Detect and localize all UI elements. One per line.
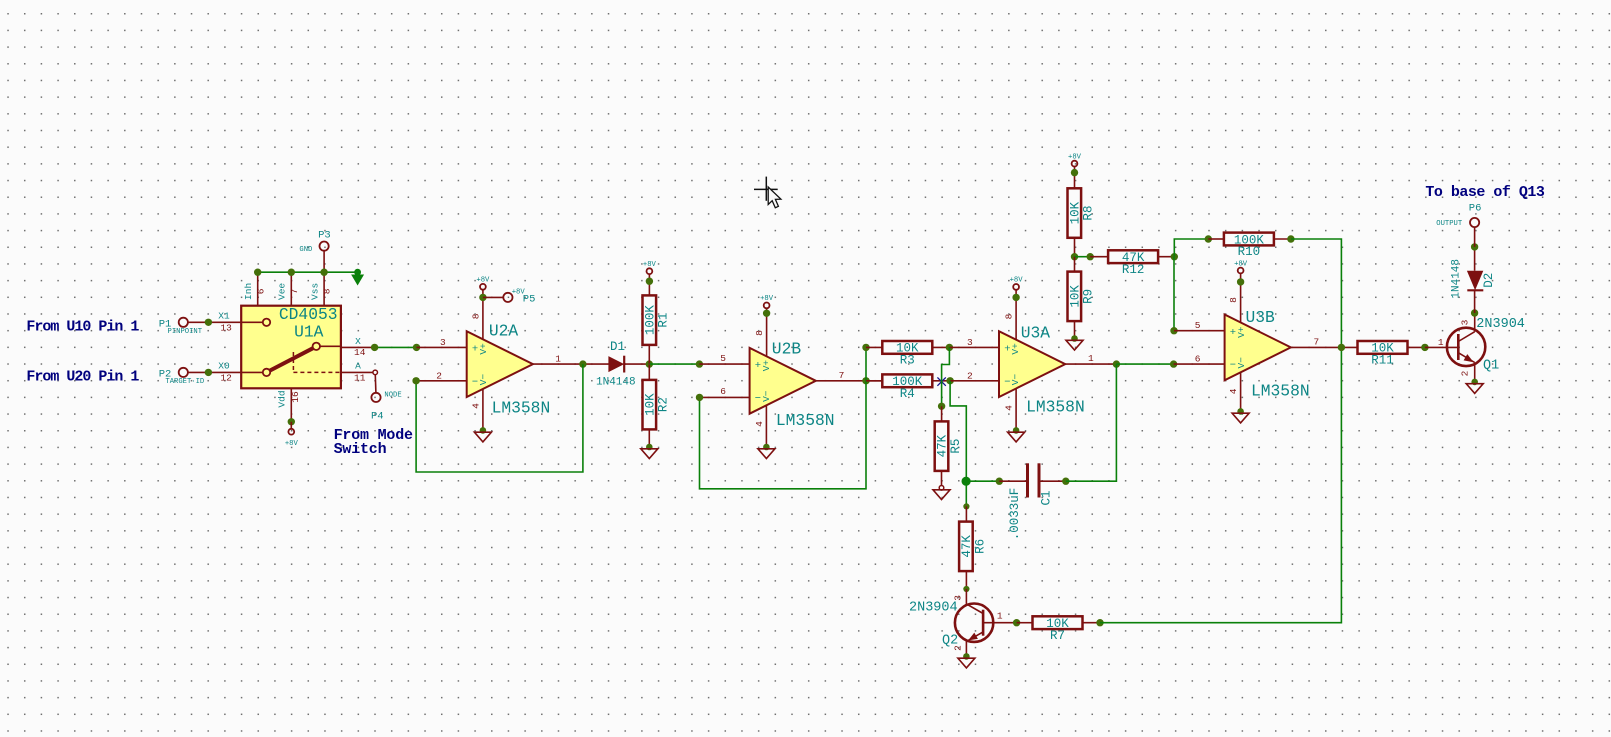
svg-text:2N3904: 2N3904 xyxy=(909,601,958,616)
svg-text:TARGET·ID: TARGET·ID xyxy=(165,378,204,386)
wire pin2 node down xyxy=(950,381,966,481)
diode D1 xyxy=(596,340,636,388)
svg-text:10K: 10K xyxy=(1069,201,1083,224)
svg-text:U3B: U3B xyxy=(1246,308,1276,327)
junction xyxy=(479,294,486,301)
ground U2A xyxy=(474,427,491,442)
connector P3 GND xyxy=(299,230,330,273)
junction xyxy=(963,586,969,592)
svg-text:From U20 Pin 1: From U20 Pin 1 xyxy=(26,369,139,386)
junction xyxy=(1071,169,1078,176)
pin Vdd (16) xyxy=(277,388,301,422)
svg-text:5: 5 xyxy=(720,353,726,364)
junction xyxy=(413,344,420,351)
svg-text:7: 7 xyxy=(289,289,300,295)
pin 1 output U3A xyxy=(1065,353,1116,364)
svg-text:R12: R12 xyxy=(1122,263,1145,277)
wire C1 node left xyxy=(966,480,999,482)
pin 5 stub U2B xyxy=(699,353,749,364)
svg-text:V+: V+ xyxy=(478,343,489,355)
svg-text:R8: R8 xyxy=(1082,206,1096,221)
junction xyxy=(288,269,295,276)
svg-text:8: 8 xyxy=(1003,313,1014,319)
wire R4 right stub xyxy=(932,380,950,382)
wire gnd bus xyxy=(258,271,358,273)
svg-text:10K: 10K xyxy=(1069,285,1083,308)
pin Vss (8) xyxy=(309,272,332,306)
mux U1A control dashed line xyxy=(293,352,341,372)
pin 2 stub U3A xyxy=(950,370,999,381)
junction xyxy=(1205,235,1212,242)
wire U2B feedback loop xyxy=(700,381,867,489)
ground U3A xyxy=(1008,427,1025,442)
op-amp U3B xyxy=(1225,308,1310,400)
svg-text:U3A: U3A xyxy=(1021,324,1051,343)
svg-text:NODE: NODE xyxy=(384,392,401,400)
wire R5 top xyxy=(941,406,943,421)
pin 7 output U2B xyxy=(816,370,882,381)
svg-text:V−: V− xyxy=(761,390,772,402)
junction xyxy=(1170,327,1177,334)
svg-text:2: 2 xyxy=(953,645,964,651)
pin 5 stub U3B xyxy=(1174,320,1225,331)
junction xyxy=(371,344,378,351)
svg-text:7: 7 xyxy=(1314,336,1320,347)
wire R3 left stub xyxy=(866,346,882,348)
ground Q2 xyxy=(958,653,975,668)
op-amp U3A xyxy=(999,324,1085,417)
connector P5 xyxy=(483,288,536,305)
svg-text:1: 1 xyxy=(1438,337,1444,348)
svg-text:Switch: Switch xyxy=(334,441,387,458)
mouse cursor crosshair xyxy=(754,177,781,208)
connector P2 xyxy=(159,368,205,386)
svg-text:8: 8 xyxy=(470,313,481,319)
no-connect X marker xyxy=(937,377,945,385)
wire R8R12 link xyxy=(1075,256,1091,258)
pin X0 (12) xyxy=(188,361,263,384)
pin 8 U3B xyxy=(1228,273,1241,323)
wire R6 bottom xyxy=(965,571,967,589)
svg-text:Inh: Inh xyxy=(243,283,254,300)
svg-text:4: 4 xyxy=(470,403,481,409)
svg-text:R5: R5 xyxy=(949,439,963,454)
pin 2 stub U2A xyxy=(416,370,467,381)
junction xyxy=(938,403,945,410)
pin 1 output U2A xyxy=(533,354,609,365)
junction xyxy=(205,319,212,326)
transistor Q2 xyxy=(909,589,1003,656)
op-amp U2B xyxy=(750,340,835,431)
svg-text:R1: R1 xyxy=(657,313,671,328)
wire U2A feedback loop xyxy=(416,364,583,472)
mux U1A switch lever xyxy=(270,348,313,370)
svg-text:P5: P5 xyxy=(523,294,536,306)
svg-text:X1: X1 xyxy=(218,311,230,322)
wire R10 left stub xyxy=(1208,238,1224,240)
resistor R4 xyxy=(882,374,932,401)
svg-text:D1: D1 xyxy=(610,340,625,354)
svg-text:6: 6 xyxy=(720,386,726,397)
wire R12 right stub xyxy=(1158,256,1174,258)
svg-text:8: 8 xyxy=(322,288,333,294)
svg-text:OUTPUT: OUTPUT xyxy=(1436,220,1463,228)
pin 6 stub U3B xyxy=(1174,353,1225,364)
svg-text:Vdd: Vdd xyxy=(277,390,288,407)
pin 4 U2B xyxy=(754,406,766,448)
junction xyxy=(1471,309,1478,316)
svg-text:8: 8 xyxy=(754,330,765,336)
svg-text:U2A: U2A xyxy=(489,321,519,340)
wire R8 bottom xyxy=(1074,238,1076,257)
junction xyxy=(1071,253,1078,260)
svg-text:12: 12 xyxy=(220,373,232,384)
mux U1A switch contacts xyxy=(263,319,320,377)
resistor R9 xyxy=(1068,272,1096,322)
junction xyxy=(862,377,869,384)
wire R1 bottom xyxy=(648,345,650,364)
ground U3B xyxy=(1232,408,1249,423)
svg-text:+8V: +8V xyxy=(1234,260,1248,268)
pin Vee (7) xyxy=(277,272,300,306)
svg-text:1: 1 xyxy=(555,354,561,365)
wire R9 bottom xyxy=(1074,321,1076,338)
ground R5 xyxy=(933,486,950,500)
svg-text:A: A xyxy=(355,361,361,372)
junction xyxy=(354,269,361,276)
svg-text:+8V: +8V xyxy=(643,261,657,269)
wire R2 top xyxy=(648,364,650,380)
ground R9 xyxy=(1066,335,1083,350)
svg-text:P6: P6 xyxy=(1469,202,1482,214)
wire R6 top stub xyxy=(965,506,967,521)
junction xyxy=(1062,478,1069,485)
svg-text:R11: R11 xyxy=(1371,354,1394,368)
svg-text:LM358N: LM358N xyxy=(1026,397,1085,416)
pin 1 Q1 base wire xyxy=(1425,337,1458,348)
svg-text:LM358N: LM358N xyxy=(492,399,551,418)
svg-text:2: 2 xyxy=(436,370,442,381)
junction xyxy=(205,369,212,376)
svg-text:+8V: +8V xyxy=(1010,277,1024,285)
text From Mode Switch xyxy=(334,427,413,458)
svg-text:R2: R2 xyxy=(657,397,671,412)
wire C1 to U3A out xyxy=(1066,364,1117,481)
svg-text:8: 8 xyxy=(1228,297,1239,303)
wire R10 right stub xyxy=(1274,238,1291,240)
svg-text:16: 16 xyxy=(290,391,301,403)
svg-text:P4: P4 xyxy=(371,411,384,423)
resistor R2 xyxy=(643,380,671,430)
svg-text:From U10 Pin 1: From U10 Pin 1 xyxy=(26,318,139,335)
svg-text:47K: 47K xyxy=(960,535,974,558)
resistor R12 xyxy=(1108,250,1158,277)
ground (green filled) xyxy=(352,275,363,285)
ground U2B xyxy=(758,444,775,459)
pin 8 U2A xyxy=(470,297,483,340)
svg-text:R3: R3 xyxy=(900,354,915,368)
wire D1 node to pin5 xyxy=(649,363,699,365)
svg-text:1: 1 xyxy=(1088,353,1094,364)
pin 7 output U3B xyxy=(1291,336,1358,347)
pin 8 U2B xyxy=(754,308,767,356)
svg-text:Vss: Vss xyxy=(309,283,320,300)
junction xyxy=(288,418,295,425)
svg-text:6: 6 xyxy=(1195,353,1201,364)
wire R6 top green xyxy=(965,481,967,506)
junction xyxy=(1421,344,1428,351)
resistor R1 xyxy=(643,295,671,345)
svg-text:1: 1 xyxy=(997,611,1003,622)
svg-text:1N4148: 1N4148 xyxy=(1451,259,1463,299)
text From U20 Pin 1 xyxy=(26,369,139,386)
svg-text:R6: R6 xyxy=(973,539,987,554)
wire R12 left stub xyxy=(1090,256,1108,258)
svg-text:R10: R10 xyxy=(1238,245,1261,259)
junction xyxy=(962,477,971,486)
junction xyxy=(696,360,703,367)
wire D1 cathode xyxy=(624,363,649,365)
capacitor C1 xyxy=(999,463,1066,540)
resistor R8 xyxy=(1068,188,1096,238)
wire R4 left stub xyxy=(866,380,882,382)
junction xyxy=(412,377,419,384)
resistor R11 xyxy=(1358,341,1408,368)
svg-text:2N3904: 2N3904 xyxy=(1476,317,1525,332)
svg-text:+8V: +8V xyxy=(285,440,299,448)
resistor R10 xyxy=(1224,233,1274,260)
svg-text:2: 2 xyxy=(1459,370,1470,376)
junction xyxy=(696,394,703,401)
svg-text:D2: D2 xyxy=(1482,273,1496,288)
diode D2 xyxy=(1451,247,1497,313)
connector P6 OUTPUT xyxy=(1436,202,1481,247)
junction xyxy=(320,269,327,276)
junction xyxy=(579,360,586,367)
wire R10 to output xyxy=(1291,239,1342,347)
power +8V U3A xyxy=(1010,277,1024,290)
svg-text:100K: 100K xyxy=(644,305,658,336)
svg-text:V−: V− xyxy=(478,374,489,386)
wire Vdd stub xyxy=(290,422,292,429)
wire X to pin3 xyxy=(375,346,417,348)
junction xyxy=(1287,235,1294,242)
text From U10 Pin 1 xyxy=(26,318,139,335)
junction xyxy=(763,310,770,317)
pin A (11) xyxy=(341,361,378,384)
wire R3 right stub xyxy=(932,346,949,348)
svg-text:R7: R7 xyxy=(1050,629,1065,643)
op-amp U2A xyxy=(467,321,551,417)
svg-text:Q1: Q1 xyxy=(1483,358,1499,373)
svg-text:+8V: +8V xyxy=(512,288,526,296)
junction xyxy=(1013,619,1020,626)
pin 3 stub U3A xyxy=(949,337,999,348)
power +8V at Vdd xyxy=(285,429,299,448)
pin Inh (6) xyxy=(243,272,266,306)
wire R12 down to pin5 xyxy=(1173,257,1175,331)
ground Q1 xyxy=(1466,379,1483,394)
svg-text:PINPOINT: PINPOINT xyxy=(168,328,203,336)
svg-text:13: 13 xyxy=(220,323,232,334)
svg-text:6: 6 xyxy=(255,288,266,294)
junction xyxy=(1170,360,1177,367)
wire R7 to output column xyxy=(1100,347,1341,622)
pin 6 stub U2B xyxy=(700,386,750,398)
pin 3 stub U2A xyxy=(417,337,467,348)
wire R7 left stub xyxy=(1017,622,1033,624)
svg-text:10K: 10K xyxy=(644,393,658,416)
connector P1 xyxy=(159,318,203,336)
pin 4 U2A xyxy=(470,389,483,430)
svg-text:V−: V− xyxy=(1010,374,1021,386)
pin 8 U3A xyxy=(1003,290,1016,340)
svg-text:R4: R4 xyxy=(900,387,915,401)
pin 4 U3B xyxy=(1228,372,1241,411)
svg-text:V+: V+ xyxy=(1010,343,1021,355)
svg-text:V+: V+ xyxy=(761,360,772,372)
svg-text:2: 2 xyxy=(967,370,973,381)
svg-text:Vee: Vee xyxy=(277,283,288,300)
svg-text:5: 5 xyxy=(1195,320,1201,331)
svg-text:4: 4 xyxy=(1228,388,1239,394)
power +8V at R1 xyxy=(643,261,657,295)
power +8V U3B xyxy=(1234,260,1248,273)
resistor R5 xyxy=(935,421,963,471)
pin X1 (13) xyxy=(188,311,263,334)
svg-text:CD4053: CD4053 xyxy=(279,305,338,324)
wire R2 bottom xyxy=(648,429,650,447)
svg-text:V+: V+ xyxy=(1236,326,1247,338)
svg-text:3: 3 xyxy=(953,595,964,601)
junction xyxy=(996,478,1003,485)
svg-text:R9: R9 xyxy=(1082,289,1096,304)
svg-text:3: 3 xyxy=(440,337,446,348)
junction xyxy=(1096,619,1103,626)
junction xyxy=(1113,360,1120,367)
connector P4 NODE xyxy=(371,392,402,423)
svg-text:V−: V− xyxy=(1236,357,1247,369)
svg-text:7: 7 xyxy=(839,370,845,381)
pin 4 U3A xyxy=(1003,389,1016,430)
svg-text:3: 3 xyxy=(967,337,973,348)
junction xyxy=(1012,294,1019,301)
svg-text:11: 11 xyxy=(354,372,366,383)
junction xyxy=(1087,253,1094,260)
text To base of Q13 xyxy=(1425,184,1545,201)
wire R3-R4 zigzag xyxy=(942,347,950,406)
svg-text:4: 4 xyxy=(754,421,765,427)
svg-text:47K: 47K xyxy=(936,434,950,457)
svg-text:+8V: +8V xyxy=(1068,153,1082,161)
svg-text:+8V: +8V xyxy=(476,277,490,285)
resistor R3 xyxy=(882,341,932,368)
junction xyxy=(1471,243,1478,250)
transistor Q1 xyxy=(1447,313,1525,382)
svg-text:U2B: U2B xyxy=(772,340,802,359)
junction xyxy=(254,269,261,276)
power +8V at R8 xyxy=(1068,153,1082,188)
power +8V U2B xyxy=(760,295,774,308)
svg-text:X0: X0 xyxy=(218,361,230,372)
wire R5 bottom xyxy=(941,471,943,486)
pin 1 Q2 base wire xyxy=(983,622,1017,624)
junction xyxy=(1171,253,1178,260)
wire R11 right stub xyxy=(1408,346,1425,348)
resistor R7 xyxy=(1033,616,1083,643)
wire A pin to P4 xyxy=(374,375,377,393)
svg-text:+8V: +8V xyxy=(760,295,774,303)
svg-text:P3: P3 xyxy=(318,230,331,242)
junction xyxy=(646,278,653,285)
svg-text:1N4148: 1N4148 xyxy=(596,377,636,389)
junction xyxy=(963,503,969,509)
svg-text:14: 14 xyxy=(354,347,366,358)
pin X (14) xyxy=(320,336,375,358)
wire U3A out to pin6 xyxy=(1116,363,1173,365)
svg-text:LM358N: LM358N xyxy=(1251,381,1310,400)
svg-text:.0033uF: .0033uF xyxy=(1008,488,1022,541)
ground R2 xyxy=(641,444,658,459)
junction xyxy=(946,344,953,351)
svg-text:GND: GND xyxy=(299,246,312,254)
junction xyxy=(1338,344,1345,351)
junction xyxy=(646,360,653,367)
wire R12 up to R10 xyxy=(1174,239,1208,257)
svg-text:To base of Q13: To base of Q13 xyxy=(1425,184,1545,201)
junction xyxy=(862,344,869,351)
wire R3R4 left vertical xyxy=(865,347,867,380)
resistor R6 xyxy=(959,522,987,572)
svg-text:C1: C1 xyxy=(1040,490,1054,505)
wire R9 top stub xyxy=(1074,257,1076,272)
mux U1A box xyxy=(241,305,341,388)
svg-text:LM358N: LM358N xyxy=(776,411,835,430)
svg-text:X: X xyxy=(355,336,361,347)
power +8V U2A xyxy=(476,277,490,298)
junction xyxy=(946,377,953,384)
svg-text:4: 4 xyxy=(1003,405,1014,411)
svg-text:3: 3 xyxy=(1459,319,1470,325)
junction xyxy=(1237,278,1244,285)
svg-text:U1A: U1A xyxy=(294,323,324,342)
wire R7 right stub xyxy=(1083,622,1101,624)
